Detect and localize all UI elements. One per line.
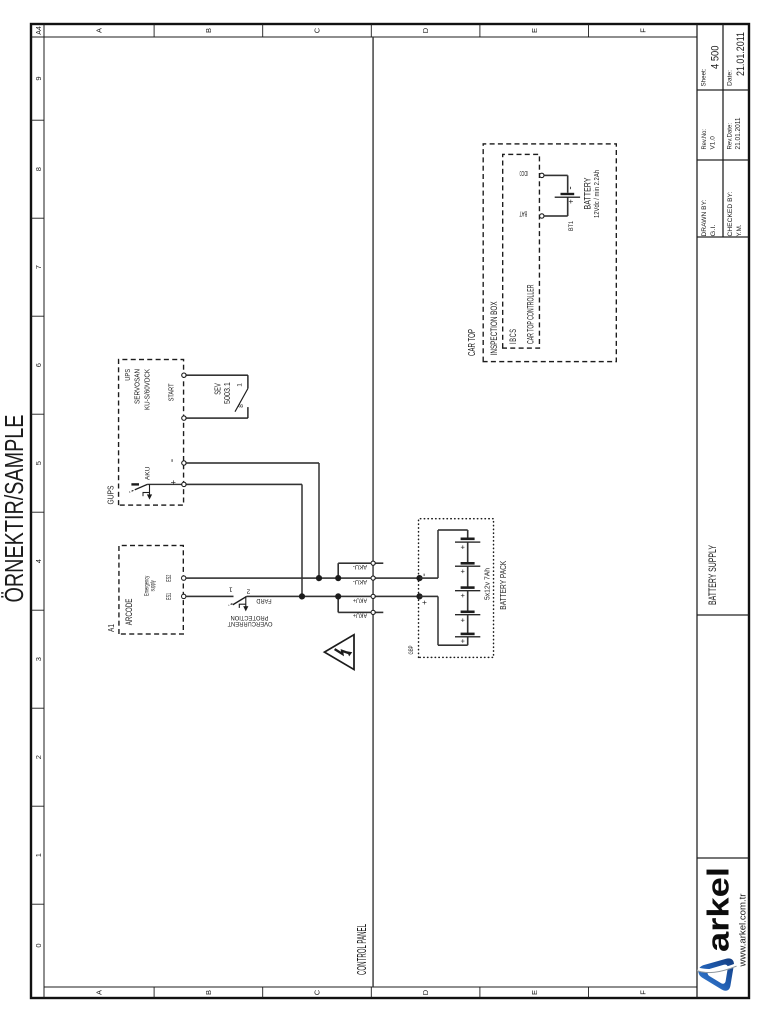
wire GUPS start a down <box>186 417 248 419</box>
wire GUPS minus to ES2 <box>186 462 319 464</box>
terminal IDC0 <box>540 173 544 177</box>
svg-text:KU-S/60VDCK: KU-S/60VDCK <box>143 369 152 410</box>
controller box A1 ARCODE <box>107 546 183 635</box>
svg-text:A4: A4 <box>36 26 43 35</box>
svg-text:CHECKED BY:: CHECKED BY: <box>727 191 734 236</box>
svg-text:+: + <box>458 617 467 622</box>
svg-text:5: 5 <box>34 461 43 465</box>
svg-text:ES1: ES1 <box>166 593 173 600</box>
svg-text:+: + <box>458 593 467 598</box>
wire GUPS plus to ES1 <box>186 483 302 485</box>
svg-text:CAR TOP: CAR TOP <box>467 329 478 356</box>
wire GUPS start b down <box>186 374 248 376</box>
svg-text:INSPECTION BOX: INSPECTION BOX <box>489 301 499 355</box>
pack polarity labels <box>419 573 430 605</box>
svg-text:SEV: SEV <box>214 383 223 395</box>
svg-text:BATTERY PACK: BATTERY PACK <box>499 560 508 610</box>
svg-text:1: 1 <box>229 586 233 593</box>
junction AKU- stub <box>335 575 341 581</box>
svg-text:V1.0: V1.0 <box>710 136 717 150</box>
terminal ES1 <box>182 594 186 598</box>
svg-text:BATTERY: BATTERY <box>583 178 593 210</box>
title block grid <box>697 24 749 998</box>
svg-text:3: 3 <box>34 657 43 661</box>
battery BT1 <box>555 186 580 231</box>
battery cell 3 <box>455 588 480 612</box>
svg-text:IBCS: IBCS <box>508 328 518 344</box>
breaker FARD <box>229 586 272 612</box>
svg-text:ES2: ES2 <box>166 575 173 582</box>
arkel logo <box>697 867 749 991</box>
svg-text:21.01.2011: 21.01.2011 <box>733 118 742 150</box>
panel feedthrough AKU+ b <box>371 610 375 614</box>
UPS unit box GUPS <box>107 360 184 506</box>
svg-text:12Vdc / min 2.2Ah: 12Vdc / min 2.2Ah <box>594 170 601 218</box>
svg-text:+: + <box>458 544 467 549</box>
svg-text:2: 2 <box>34 755 43 759</box>
svg-text:B: B <box>204 28 213 33</box>
svg-text:21.01.2011: 21.01.2011 <box>735 32 747 76</box>
battery cell 5 <box>455 634 480 643</box>
svg-text:B: B <box>204 990 213 995</box>
battery cell 4 <box>455 612 480 634</box>
svg-text:4: 4 <box>34 559 43 563</box>
terminal GUPS start b <box>182 373 186 377</box>
svg-text:BATTERY SUPPLY: BATTERY SUPPLY <box>707 545 719 605</box>
svg-text:E: E <box>530 990 539 995</box>
reference grid numbers 0-9 <box>31 77 44 948</box>
hazard warning triangle <box>324 635 354 670</box>
svg-text:BAT: BAT <box>519 209 527 216</box>
svg-text:-: - <box>566 186 577 189</box>
title block rev cell <box>701 118 742 150</box>
svg-text:Y.M.: Y.M. <box>736 224 743 236</box>
svg-text:GBP: GBP <box>408 646 415 655</box>
svg-text:G.I.: G.I. <box>710 224 717 236</box>
svg-text:2: 2 <box>246 588 250 595</box>
svg-text:-: - <box>419 573 430 576</box>
svg-text:8: 8 <box>34 167 43 171</box>
svg-text:1: 1 <box>237 383 244 387</box>
reference grid letters A-F <box>95 24 648 998</box>
junction ES2/minus <box>316 575 322 581</box>
wire IDC0 to battery <box>544 175 568 192</box>
stub terminal AKU- right <box>338 563 383 578</box>
battery BT1 value labels <box>583 170 602 218</box>
svg-text:DRAWN BY:: DRAWN BY: <box>701 199 708 236</box>
svg-text:START: START <box>169 383 176 401</box>
junction pack entry AKU+ <box>416 593 422 599</box>
terminal GUPS start a <box>182 416 186 420</box>
battery cell 1 <box>455 539 480 564</box>
svg-text:BT1: BT1 <box>568 221 575 231</box>
terminal BAT <box>540 214 544 218</box>
svg-text:0: 0 <box>34 944 43 948</box>
svg-text:A1: A1 <box>107 624 116 632</box>
switch SEV 5003.1 <box>214 375 248 418</box>
battery pack box GBP <box>408 519 494 658</box>
svg-text:9: 9 <box>34 77 43 81</box>
svg-text:supply: supply <box>151 580 157 591</box>
svg-text:CONTROL PANEL: CONTROL PANEL <box>355 924 369 975</box>
svg-text:-: - <box>166 458 178 462</box>
svg-text:AKU+: AKU+ <box>353 597 367 604</box>
svg-text:+: + <box>458 568 467 573</box>
wire BAT to battery <box>544 197 568 216</box>
svg-text:5003.1: 5003.1 <box>223 382 232 404</box>
svg-text:AKU-: AKU- <box>353 563 367 570</box>
svg-text:C: C <box>313 27 322 33</box>
svg-text:A: A <box>95 28 104 33</box>
svg-text:E: E <box>530 28 539 33</box>
svg-text:arkel: arkel <box>701 867 736 952</box>
svg-text:AKU: AKU <box>145 466 152 480</box>
terminal GUPS plus <box>182 482 186 486</box>
svg-text:7: 7 <box>34 265 43 269</box>
battery cell 2 <box>455 563 480 587</box>
terminal ES2 <box>182 576 186 580</box>
control panel boundary line <box>372 37 374 987</box>
svg-text:C: C <box>313 989 322 995</box>
wire ES1 upper segment <box>186 595 233 597</box>
svg-text:GUPS: GUPS <box>107 486 116 505</box>
inspection box IBCS <box>503 154 540 348</box>
svg-text:8: 8 <box>238 404 245 408</box>
terminal GUPS minus <box>182 461 186 465</box>
title block drawn/checked cell <box>701 191 743 236</box>
svg-text:AKU-: AKU- <box>353 578 367 585</box>
breaker AKU inside GUPS <box>129 466 183 499</box>
svg-text:UPS: UPS <box>123 369 132 381</box>
svg-text:+: + <box>420 600 429 605</box>
junction ES1/plus <box>299 593 305 599</box>
pack wiring minus side <box>420 530 468 578</box>
junction pack entry AKU- <box>416 575 422 581</box>
svg-text:5x12v 7Ah: 5x12v 7Ah <box>483 568 492 600</box>
title block sheet cell <box>701 32 748 87</box>
svg-text:+: + <box>169 480 179 485</box>
svg-text:F: F <box>638 28 647 33</box>
svg-text:Rev.No:: Rev.No: <box>701 129 708 150</box>
svg-text:SERVOSAN: SERVOSAN <box>132 369 141 404</box>
svg-text:D: D <box>421 989 430 995</box>
car top enclosure box <box>467 144 616 362</box>
svg-text:1: 1 <box>34 853 43 857</box>
panel feedthrough AKU+ a <box>371 594 375 598</box>
svg-text:www.arkel.com.tr: www.arkel.com.tr <box>738 894 749 968</box>
svg-text:IDC0: IDC0 <box>519 169 528 176</box>
svg-text:ÖRNEKTIR/SAMPLE: ÖRNEKTIR/SAMPLE <box>0 415 29 603</box>
svg-text:Sheet:: Sheet: <box>701 68 708 86</box>
svg-text:A: A <box>95 990 104 995</box>
svg-text:F: F <box>638 990 647 995</box>
svg-text:AKU+: AKU+ <box>353 612 367 619</box>
svg-text:6: 6 <box>34 363 43 367</box>
svg-text:FARD: FARD <box>256 597 272 604</box>
panel feedthrough AKU- b <box>371 576 375 580</box>
svg-text:D: D <box>421 27 430 33</box>
panel feedthrough AKU- a <box>371 561 375 565</box>
wire ES2 to battery pack (AKU-) <box>186 577 419 579</box>
pack wiring plus side <box>420 596 468 645</box>
svg-text:CAR TOP CONTROLLER: CAR TOP CONTROLLER <box>525 284 535 344</box>
svg-text:ARCODE: ARCODE <box>124 599 134 626</box>
stub terminal AKU+ left <box>338 596 383 612</box>
wire ES1 lower segment (AKU+) <box>247 595 420 597</box>
svg-text:+: + <box>458 638 467 643</box>
svg-text:4 500: 4 500 <box>710 46 722 70</box>
junction AKU+ stub <box>335 593 341 599</box>
svg-text:+: + <box>567 199 576 204</box>
svg-text:PROTECTION: PROTECTION <box>231 614 269 621</box>
label OVERCURRENT PROTECTION for FARD <box>227 614 272 627</box>
svg-text:Date:: Date: <box>727 70 734 86</box>
